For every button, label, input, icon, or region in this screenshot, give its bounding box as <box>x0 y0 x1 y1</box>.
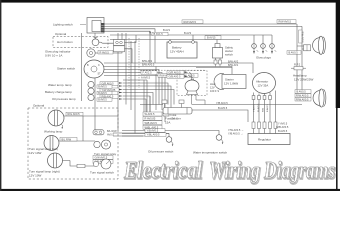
page edge: top black strip <box>0 0 340 3</box>
label: Y/W AV0.5 right <box>228 128 244 132</box>
svg-text:B AV0.5: B AV0.5 <box>297 90 307 94</box>
svg-text:Optional: Optional <box>55 32 67 36</box>
label: Water temp lamp <box>48 83 72 87</box>
svg-text:12V: 12V <box>210 86 215 90</box>
svg-text:C: C <box>98 64 100 67</box>
svg-text:B/L R/W: B/L R/W <box>62 137 72 141</box>
svg-text:Y/B AV0.5: Y/B AV0.5 <box>216 101 228 105</box>
svg-text:R/W AV0.5: R/W AV0.5 <box>296 97 309 101</box>
label: Turn signal lamp right <box>29 170 60 178</box>
wire: lighting switch bus top <box>104 23 297 25</box>
connector: horn line plug <box>114 40 125 52</box>
connector: fuse holder taps <box>162 100 184 108</box>
label: R/G AV0.5 <box>66 112 83 116</box>
label: B AV3 <box>184 31 192 35</box>
svg-text:W AV0.5: W AV0.5 <box>257 103 260 112</box>
svg-text:R/W AV0.5: R/W AV0.5 <box>184 20 197 24</box>
svg-text:B/W AV0.5: B/W AV0.5 <box>142 63 155 67</box>
wire: main B bus <box>110 35 272 44</box>
glow plug indicator <box>87 49 95 57</box>
svg-text:A AV0.5: A AV0.5 <box>141 76 151 80</box>
wire: lamp row 1a <box>123 83 168 105</box>
svg-text:B AV1.5: B AV1.5 <box>154 32 164 36</box>
fuse holder <box>163 108 192 115</box>
svg-text:B AV1: B AV1 <box>163 28 171 32</box>
label: Turn signal switch <box>90 171 114 175</box>
turn signal switch <box>93 159 111 169</box>
svg-text:Y/BL AV0.5: Y/BL AV0.5 <box>147 133 161 137</box>
logo text: Electrical Wiring Diagrams <box>123 158 336 185</box>
label stack: W AV0.5 group <box>143 112 162 129</box>
label: B/L R/W AV0.5 <box>107 129 117 136</box>
svg-text:Y/B AV0.5: Y/B AV0.5 <box>147 129 159 133</box>
wire: horn leads <box>189 72 205 104</box>
label: G/R AV0.5 horn <box>167 70 188 74</box>
regulator <box>248 134 290 145</box>
page edge: bottom black strip <box>0 189 340 191</box>
svg-text:12V 1.8kW: 12V 1.8kW <box>224 82 238 86</box>
label: B AV1.5 mid with arrow <box>149 32 168 36</box>
wire: safety switch lead A <box>215 58 217 60</box>
label: Y AV0.5 regulator <box>278 122 288 126</box>
svg-text:B AV15: B AV15 <box>207 36 216 40</box>
label: Fuse holder 15A <box>165 117 181 125</box>
wire: regulator connector drops <box>254 129 276 134</box>
svg-text:Horn button: Horn button <box>57 40 73 44</box>
label: Optional <box>55 32 67 36</box>
wire: lamp row 3a <box>123 96 150 136</box>
wire: fuse bus lower <box>192 110 248 122</box>
horn dashed box <box>177 71 207 96</box>
label: Optional 2 <box>33 104 45 108</box>
label: Y/B AV0.5 right <box>228 131 243 135</box>
label: Lighting switch <box>53 23 86 27</box>
page edge: right black strip <box>336 0 340 191</box>
label: Y/B AV0.5 mid <box>145 129 165 133</box>
svg-text:Water temp. lamp: Water temp. lamp <box>48 83 72 87</box>
fuse: R.P.2 <box>291 63 306 70</box>
label: G/B AV0.5 horn <box>167 75 188 79</box>
wire: center vertical v3 <box>130 41 132 110</box>
label: Battery charge lamp <box>45 90 72 94</box>
label: Oil pressure lamp <box>52 97 76 101</box>
svg-text:Electrical: Electrical <box>123 158 202 184</box>
wire: working lamp lead <box>64 115 118 117</box>
svg-text:W/B AV0.5: W/B AV0.5 <box>145 121 158 125</box>
headlamp H1 <box>304 36 326 54</box>
label: Y/B AV0.5 bus <box>216 101 228 105</box>
svg-text:B/W AV1: B/W AV1 <box>228 63 239 67</box>
wire: bundle verticals right <box>144 80 150 136</box>
svg-text:R AV0.5: R AV0.5 <box>100 50 110 54</box>
wire: starter switch row3 <box>104 70 159 105</box>
svg-text:R/W AV0.5: R/W AV0.5 <box>279 20 292 24</box>
svg-text:12V 10W: 12V 10W <box>29 151 42 155</box>
wire: battery positive drop <box>169 40 171 43</box>
oil pressure lamp <box>88 94 94 100</box>
svg-text:Y/B AV0.5 →: Y/B AV0.5 → <box>228 131 243 135</box>
wire: alternator leads down <box>254 91 276 123</box>
wire: safety switch lead B <box>219 58 221 60</box>
wire: starter switch row1 <box>104 63 253 73</box>
label: Turn signal relay <box>94 152 117 156</box>
svg-text:12V 10W: 12V 10W <box>29 174 42 178</box>
wire: battery bus B AV15 <box>110 39 240 41</box>
wire: lower bus to oil pressure switch <box>122 134 169 138</box>
water temp lamp <box>88 81 94 87</box>
label: B AV1.5 <box>163 28 171 32</box>
wire: center vertical v1 <box>117 33 119 131</box>
svg-text:B/W AV2: B/W AV2 <box>142 59 153 63</box>
svg-text:R/G AV0.5: R/G AV0.5 <box>68 112 81 116</box>
node: bus junction at starter <box>196 67 232 69</box>
battery charge lamp <box>88 88 94 94</box>
horn button switch <box>92 38 102 46</box>
connector arrows: safety switch leads <box>214 60 222 67</box>
wire: lower bus to water temp switch <box>122 131 219 136</box>
label: Y/BL AV0.5 mid <box>145 133 166 137</box>
label: Oil pressure switch <box>148 150 174 154</box>
svg-text:B/L R/W: B/L R/W <box>107 129 117 133</box>
wire: starter switch row5 <box>104 76 165 123</box>
svg-text:Turn signal switch: Turn signal switch <box>90 171 114 175</box>
label: B AV0.5 lamp2b <box>97 91 112 95</box>
wire: battery to starter <box>192 35 194 42</box>
svg-text:B AV0.5: B AV0.5 <box>98 86 107 89</box>
starter switch <box>84 60 104 78</box>
relay feed component <box>93 130 104 135</box>
label: R/W AV0.5 headlamp <box>277 20 296 24</box>
svg-text:W AV0.5: W AV0.5 <box>145 112 155 116</box>
svg-text:AV0.5: AV0.5 <box>107 132 114 136</box>
label: B AV0.5 bus <box>218 106 228 110</box>
svg-text:B AV0.5: B AV0.5 <box>289 51 299 55</box>
wire: center vertical v5 <box>155 67 157 111</box>
oil pressure switch <box>166 137 173 147</box>
svg-text:R AV0.85: R AV0.85 <box>145 117 156 121</box>
label: R/B AV0.5 <box>100 95 118 99</box>
wire: bundle horizontals <box>123 79 147 81</box>
svg-text:Water temperature switch: Water temperature switch <box>193 151 227 155</box>
svg-text:Oil pressure lamp: Oil pressure lamp <box>52 97 76 101</box>
svg-text:G: G <box>87 73 89 76</box>
svg-text:Wiring: Wiring <box>209 158 260 184</box>
svg-text:Oil pressure switch: Oil pressure switch <box>148 150 174 154</box>
wire: lamp row 1b <box>123 86 171 110</box>
label: B/W AV2 <box>142 59 153 63</box>
svg-text:12V 35A: 12V 35A <box>258 84 269 88</box>
svg-text:12V 25W/25W: 12V 25W/25W <box>294 78 314 82</box>
svg-text:Y AV0.5: Y AV0.5 <box>253 104 256 112</box>
regulator connector <box>252 122 277 129</box>
connector: bottom lead plug <box>77 164 85 167</box>
svg-text:R.P.2: R.P.2 <box>294 63 301 67</box>
optional dashed box <box>28 108 118 179</box>
svg-text:W/B AV0.5: W/B AV0.5 <box>276 125 289 129</box>
svg-text:B AV0.5: B AV0.5 <box>98 99 107 102</box>
svg-text:W/B: W/B <box>263 107 265 112</box>
svg-text:B AV0.5: B AV0.5 <box>278 129 288 133</box>
label: Turn signal lamp left <box>29 147 58 155</box>
label: F AV2.5 <box>141 71 157 75</box>
wire: starter switch row2 <box>104 67 232 75</box>
label: B AV0.5 h1 <box>287 51 301 55</box>
headlamp H2 <box>313 89 326 107</box>
label: Safety starter switch <box>225 46 234 57</box>
connector: alternator plugs <box>252 96 271 100</box>
svg-text:B AV0.5: B AV0.5 <box>266 103 269 112</box>
label: R/W vertical tag <box>299 30 304 43</box>
label: G/R AV0.5 <box>100 82 118 86</box>
fuse symbol center <box>163 112 177 120</box>
wire: lamps interconnect vertical <box>82 116 84 141</box>
svg-text:15A: 15A <box>165 120 170 124</box>
svg-text:ST: ST <box>98 73 102 76</box>
svg-text:Starter switch: Starter switch <box>57 67 76 71</box>
label: Water temperature switch <box>193 151 227 155</box>
label: R/W AV0.5 h2b <box>295 97 311 101</box>
page edge: left dark line <box>0 0 1 191</box>
water temperature switch <box>216 135 223 145</box>
wire: lamp row 3b <box>123 99 146 131</box>
wire: relay vertical <box>94 78 96 130</box>
svg-text:Optional: Optional <box>33 104 45 108</box>
label: B AV15 <box>205 36 221 40</box>
wire: headlamp vertical feed 1 <box>297 24 311 96</box>
svg-text:switch: switch <box>225 53 233 57</box>
connector pins: lamp rows <box>119 82 123 100</box>
working lamp <box>48 110 64 129</box>
wire: turn lamp bottom lead <box>63 161 97 167</box>
wire: dashed boundary horizontal <box>140 69 205 71</box>
svg-text:Working lamp: Working lamp <box>44 130 63 134</box>
label: W/B AV0.5 regulator <box>276 125 289 129</box>
svg-text:F AV2.5: F AV2.5 <box>143 71 153 75</box>
label: B AV0.5 h2 <box>295 90 311 94</box>
wire: optional boundary vertical <box>81 33 83 101</box>
svg-text:Lighting switch: Lighting switch <box>53 23 73 27</box>
label: B AV0.5 lamp3b <box>97 98 112 102</box>
wire: lighting switch bus 2 <box>104 25 302 27</box>
label: Y AV2 <box>141 76 151 80</box>
safety starter switch <box>213 44 223 59</box>
svg-text:Diagrams: Diagrams <box>263 158 335 184</box>
wire: turn signal feeds <box>122 134 169 137</box>
svg-text:G/B AV0.5: G/B AV0.5 <box>169 75 181 79</box>
lighting switch <box>87 18 105 34</box>
svg-text:0.9V 10 × 1A: 0.9V 10 × 1A <box>45 53 62 57</box>
wire: relay output wires <box>113 133 160 136</box>
wire: center vertical v4 <box>134 41 136 134</box>
turn signal relay <box>94 140 111 149</box>
label: B AV0.5 regulator <box>278 129 288 133</box>
label: B/L R/W <box>60 137 77 141</box>
svg-text:R/W AV0.5: R/W AV0.5 <box>301 32 304 44</box>
svg-text:Battery charge lamp: Battery charge lamp <box>45 90 72 94</box>
glow plugs <box>252 44 277 54</box>
label: Headlamp 12V 25W/25W <box>293 74 314 82</box>
label: Y/W AV0.85 <box>100 88 119 92</box>
label: Starter switch <box>57 67 76 71</box>
horn <box>185 80 199 95</box>
wire: switch drop <box>94 33 96 39</box>
svg-text:G/R AV0.5: G/R AV0.5 <box>169 70 182 74</box>
wire: dashed verticals <box>129 38 139 88</box>
svg-text:Horn: Horn <box>210 82 216 86</box>
label: R/W AV0.5 h2 <box>295 93 311 97</box>
svg-text:Glow plugs: Glow plugs <box>256 56 271 60</box>
label: Glow plugs <box>256 56 271 60</box>
svg-text:12V 45AH: 12V 45AH <box>170 50 184 54</box>
label: B AV0.5 lamp1b <box>97 85 112 89</box>
label: B/W AV2 top <box>228 60 239 64</box>
label: R/W AV0.5 bus <box>182 20 203 24</box>
svg-text:R/W AV0.5: R/W AV0.5 <box>296 93 309 97</box>
battery B1 <box>167 41 197 58</box>
label: B/W AV1 <box>228 63 239 67</box>
wire: lamp row 2a <box>123 90 174 105</box>
wire: lighting switch pin 4 drop <box>104 31 150 63</box>
wire: fuse bus <box>140 104 302 106</box>
label stack: G/W G/B G <box>93 155 113 163</box>
label: B/W AV0.5 <box>142 63 155 67</box>
wire: headlamp vertical feed 2 <box>302 26 311 99</box>
wire: starter switch row4 <box>104 73 162 111</box>
wire: horn feed <box>102 35 136 63</box>
starter motor <box>214 73 246 89</box>
label: Glow plug indicator <box>45 50 71 58</box>
label: Working lamp <box>44 130 63 134</box>
svg-text:Regulator: Regulator <box>258 138 271 142</box>
svg-text:Y AV0.5: Y AV0.5 <box>278 122 288 126</box>
svg-text:100 F S: 100 F S <box>210 89 219 93</box>
turn signal lamp left <box>44 136 59 151</box>
svg-text:B AV3: B AV3 <box>184 31 192 35</box>
svg-text:Y/W AV0.5 →: Y/W AV0.5 → <box>228 128 244 132</box>
svg-text:B AV0.5: B AV0.5 <box>218 106 228 110</box>
label: wire names vertical alternator <box>253 103 270 112</box>
svg-text:B/W AV2: B/W AV2 <box>228 60 239 64</box>
label: indicator wire <box>98 50 113 54</box>
turn signal lamp right <box>48 153 63 168</box>
wire: glow indicator lead <box>96 33 123 53</box>
wire: lighting switch bus 3 <box>104 29 155 63</box>
alternator <box>253 73 276 94</box>
horn button dashed box <box>53 37 108 48</box>
wire: turn lamp left lead <box>58 140 95 142</box>
svg-text:B AV0.5: B AV0.5 <box>98 92 107 95</box>
wire: center vertical v2 <box>125 33 127 105</box>
label: R/BL AV0.5 pair <box>158 74 198 78</box>
wire: lamp row 2b <box>123 93 153 105</box>
label: Horn 12V <box>210 82 219 93</box>
label: Horn button <box>57 40 73 44</box>
